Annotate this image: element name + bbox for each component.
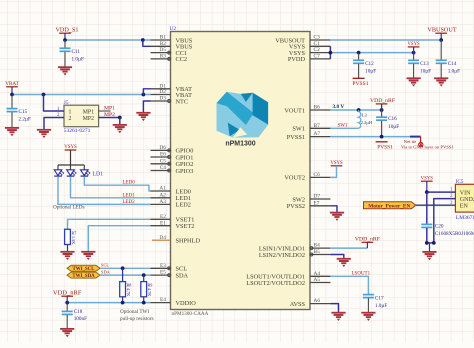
resistor R9 body (141, 282, 147, 297)
power port VSYS (LEDs) (64, 145, 77, 150)
wire VSYS to LED anodes (70, 150, 72, 165)
svg-text:C1608X5R0J106M080AB: C1608X5R0J106M080AB (435, 231, 474, 237)
svg-text:VDD_nRF: VDD_nRF (53, 289, 82, 296)
IC5 pin 1 VIN (450, 188, 471, 197)
ground below C14 (434, 78, 448, 86)
svg-text:LED2: LED2 (176, 202, 191, 209)
svg-text:VBUSOUT: VBUSOUT (427, 26, 456, 33)
J5 pin 2 (57, 113, 94, 122)
svg-text:E5: E5 (160, 270, 166, 276)
wire C20 bottom join (427, 242, 434, 244)
power port VSYS above C13 (407, 42, 420, 47)
ground on PVSS2 (330, 213, 344, 221)
wire VBAT to J5 pin 1 (44, 95, 65, 112)
svg-text:E2: E2 (160, 214, 166, 220)
svg-text:1.0µF: 1.0µF (448, 69, 460, 75)
svg-text:SHPHLD: SHPHLD (176, 238, 201, 245)
LED D?b (middle) (67, 165, 77, 176)
svg-text:C20: C20 (435, 223, 444, 229)
svg-text:GPIO3: GPIO3 (176, 168, 194, 175)
wire pin C1 elbow (329, 46, 331, 59)
capacitor C20 (421, 192, 474, 243)
svg-text:Optional LEDs: Optional LEDs (53, 205, 85, 211)
pin C7 PVDD (right) (288, 54, 331, 64)
svg-text:Net tie: Net tie (404, 139, 416, 144)
svg-text:3.0 V: 3.0 V (333, 104, 345, 110)
ground below C20 (422, 252, 436, 260)
svg-text:1.0µF: 1.0µF (375, 303, 387, 309)
capacitor C13 (408, 53, 431, 79)
svg-text:2.2µH: 2.2µH (361, 120, 373, 125)
IC5 pin 3 EN (450, 201, 468, 210)
wire SDA to R9 (143, 275, 145, 282)
svg-text:4.7K: 4.7K (147, 288, 152, 296)
LED anode rail (58, 164, 84, 166)
pin E6 GPIO1 (left) (151, 152, 194, 162)
svg-text:E7: E7 (314, 200, 320, 206)
pin C5 GPIO2 (left) (151, 158, 194, 168)
svg-text:2.2µF: 2.2µF (19, 116, 31, 122)
pin D6 GPIO0 (left) (151, 145, 194, 155)
IC5 pin 2 GND (450, 194, 474, 203)
svg-text:D4: D4 (159, 235, 166, 241)
junction VSYS at C13 (412, 51, 416, 55)
wire NTC to ground (143, 101, 150, 113)
svg-text:1.5K: 1.5K (71, 236, 76, 244)
junction VSYS at C20 (425, 190, 429, 194)
pin D3 NTC (left) (151, 96, 189, 106)
junction VBAT at C15 (10, 93, 14, 97)
svg-text:C17: C17 (375, 295, 384, 301)
svg-text:C1: C1 (314, 41, 321, 47)
capacitor C15 (7, 95, 31, 128)
junction VDDIO at C18 (65, 301, 69, 305)
wire LED middle to pin A2 (LED1) (71, 177, 151, 198)
LED D?c (right) (81, 165, 91, 176)
pin A6 AVSS (right) (290, 298, 331, 308)
svg-text:B1: B1 (160, 35, 167, 41)
pin E4 VDDIO (left) (151, 297, 197, 307)
inductor L3 (359, 110, 373, 128)
svg-text:PVSS1: PVSS1 (352, 81, 368, 87)
svg-text:A6: A6 (314, 298, 321, 304)
power port PVSS1 below C12 (352, 78, 368, 87)
svg-text:SW1: SW1 (292, 126, 305, 133)
svg-text:B7: B7 (314, 123, 321, 129)
wire VBAT rail (12, 94, 151, 96)
svg-text:LSOUT2/VOUTLDO2: LSOUT2/VOUTLDO2 (246, 280, 305, 287)
connector J5 body (64, 105, 99, 127)
junction SCL pull-up (121, 266, 125, 270)
pin C6 VOUT2 (right) (284, 172, 330, 182)
svg-text:AVSS: AVSS (290, 301, 306, 308)
svg-text:nPM1300-CAAA: nPM1300-CAAA (172, 311, 209, 317)
svg-text:1: 1 (69, 109, 72, 115)
wire to pin D1 (143, 89, 150, 95)
svg-text:L3: L3 (362, 113, 368, 118)
svg-text:R8: R8 (127, 283, 132, 288)
via to GND symbol (419, 137, 423, 147)
svg-text:TWI_SDA: TWI_SDA (72, 274, 95, 279)
svg-text:C13: C13 (420, 61, 429, 67)
svg-text:B6: B6 (314, 105, 321, 111)
wire LSOUT1 to C17 (330, 276, 368, 294)
svg-text:SDA: SDA (176, 272, 189, 279)
wire VDD_nRF tick (66, 296, 68, 302)
pin E2 VSET1 (left) (151, 214, 195, 224)
svg-text:D3: D3 (159, 96, 166, 102)
pin C4 GPIO3 (left) (151, 165, 194, 175)
svg-text:MP2: MP2 (83, 116, 94, 122)
svg-text:C3: C3 (314, 35, 321, 41)
ground on J5 pin 2 (37, 130, 51, 138)
svg-text:U2: U2 (170, 26, 177, 32)
svg-text:E3: E3 (160, 263, 166, 269)
wire VSYS to IC5 VIN (427, 191, 456, 193)
wire J5 pin 2 to ground (44, 118, 64, 130)
port TWI_SDA (67, 272, 100, 279)
svg-text:LED0: LED0 (123, 181, 136, 186)
wire SW1 to L3 (330, 127, 358, 129)
pin D5 CC1 (left) (151, 47, 188, 57)
wire VSYS tick C13 (413, 47, 415, 53)
capacitor C17 (363, 294, 387, 313)
pin D7 SW2 (right) (292, 194, 330, 204)
capacitor C14 (436, 40, 460, 78)
svg-text:IC5: IC5 (456, 179, 464, 185)
power port VDD_S1 (55, 26, 78, 33)
junction VDDIO at R8 (121, 301, 125, 305)
svg-text:D7: D7 (314, 194, 321, 200)
svg-text:D6: D6 (159, 145, 166, 151)
svg-text:R7: R7 (72, 231, 77, 236)
pin B4 LSIN1/VINLDO1 (right) (259, 243, 331, 253)
IC5 body (455, 184, 474, 212)
power port VDD_nRF (VOUT1) (370, 98, 395, 104)
svg-text:J5: J5 (64, 100, 69, 106)
junction PVSS1 at C16 (380, 135, 384, 139)
pin A2 LED1 (left) (151, 192, 191, 202)
pin D2 VBAT (left) (151, 89, 193, 99)
capacitor C16 (376, 110, 399, 137)
svg-text:100nF: 100nF (74, 316, 87, 322)
svg-text:VSET2: VSET2 (176, 223, 195, 230)
pin B5 LSIN2/VINLDO2 (right) (259, 249, 331, 259)
svg-text:C18: C18 (74, 309, 83, 315)
svg-text:PVSS1: PVSS1 (287, 134, 305, 141)
svg-text:pull-up resistors: pull-up resistors (120, 316, 154, 322)
pin A1 LED0 (left) (151, 186, 191, 196)
svg-text:LED1: LED1 (123, 193, 136, 198)
junction VBUSOUT at C14 (439, 38, 443, 42)
svg-text:PVSS2: PVSS2 (287, 203, 305, 210)
wire VSYS rail to C13 (330, 52, 413, 54)
pin D1 VBAT (left) (151, 83, 193, 93)
svg-text:VDD_nRF: VDD_nRF (370, 98, 395, 104)
svg-text:VBAT: VBAT (5, 81, 19, 87)
svg-text:2: 2 (69, 116, 72, 122)
junction VDDIO at R9 (142, 301, 146, 305)
capacitor C12 (353, 53, 376, 79)
junction VBUS branch (141, 38, 145, 42)
svg-text:NTC: NTC (176, 98, 189, 105)
pin E7 PVSS2 (right) (287, 200, 331, 210)
wire LED left to pin A3 (LED2) (58, 177, 151, 205)
svg-text:C4: C4 (160, 165, 167, 171)
pin C2 VSYS (right) (289, 47, 331, 57)
svg-text:SW1: SW1 (338, 124, 349, 129)
power port VSYS (VOUT2) (330, 161, 343, 166)
ground on LSIN2 (337, 259, 351, 267)
svg-text:A1: A1 (159, 186, 166, 192)
svg-text:E4: E4 (160, 297, 166, 303)
svg-text:A3: A3 (159, 199, 166, 205)
ground on MP2 (113, 125, 127, 133)
pin D4 SHPHLD (left) (152, 235, 200, 245)
wire R9 to VDDIO rail (143, 297, 145, 303)
junction VSYS elbow (329, 51, 333, 55)
svg-text:LM3671TL: LM3671TL (456, 215, 474, 221)
svg-text:B4: B4 (314, 243, 321, 249)
wire to pin B2 (143, 40, 151, 46)
svg-text:GND2: GND2 (460, 197, 474, 203)
svg-text:LED2: LED2 (123, 200, 136, 205)
svg-text:A4: A4 (314, 271, 321, 277)
J5 MP1 stub (99, 110, 111, 112)
ground on VSET2 (81, 252, 95, 260)
ground below C18 (60, 329, 74, 337)
ground below R7 (60, 252, 74, 260)
svg-text:D5: D5 (159, 47, 166, 53)
svg-text:VOUT1: VOUT1 (284, 107, 305, 114)
svg-text:LSIN2/VINLDO2: LSIN2/VINLDO2 (259, 252, 305, 259)
pin B6 VOUT1 (right) (284, 105, 330, 115)
wire VDD_nRF tick VOUT1 (381, 104, 383, 110)
pin A5 LSOUT2/VOUTLDO2 (right) (246, 277, 330, 287)
pin A3 LED2 (left) (151, 199, 191, 209)
ground below C13 (407, 78, 421, 86)
port Motor_Power_EN (364, 202, 416, 210)
svg-text:Motor_Power_EN: Motor_Power_EN (368, 203, 410, 209)
J5 MP2 stub wire (99, 117, 120, 119)
svg-text:MP1: MP1 (83, 109, 94, 115)
wire IC5 GND down (434, 199, 456, 243)
svg-text:4.7K: 4.7K (126, 288, 131, 296)
power port VDD_nRF (LSIN1) (355, 237, 380, 243)
svg-text:C5: C5 (160, 158, 167, 164)
svg-text:C12: C12 (365, 61, 374, 67)
junction VOUT1 at L3 (357, 108, 361, 112)
power port VDD_nRF (VDDIO) (53, 289, 82, 296)
svg-text:53261-0271: 53261-0271 (64, 128, 91, 134)
wire SCL (100, 267, 151, 269)
pin C3 VBUSOUT (right) (275, 35, 330, 45)
svg-text:MP1: MP1 (104, 106, 115, 112)
junction C20 bottom right (432, 241, 436, 245)
junction SDA pull-up (142, 273, 146, 277)
resistor R7 body (65, 229, 71, 244)
svg-text:A2: A2 (159, 192, 166, 198)
wire VDD_S1 tick (64, 33, 66, 40)
junction VOUT1 at C16 (380, 108, 384, 112)
svg-text:Optional TWI: Optional TWI (120, 309, 149, 315)
svg-text:VDDIO: VDDIO (176, 300, 197, 307)
pin B7 SW1 (right) (292, 123, 330, 133)
wire VOUT2 to VSYS (330, 166, 336, 178)
J5 pin 1 (57, 107, 94, 116)
IC U2 nPM1300 body (171, 32, 311, 310)
svg-text:C14: C14 (448, 61, 457, 67)
svg-text:E1: E1 (160, 220, 166, 226)
Nordic Semiconductor logo (217, 92, 269, 138)
junction VBAT at D1 branch (142, 93, 146, 97)
junction VSYS at C12 (357, 51, 361, 55)
net tie NT1 (410, 136, 421, 138)
svg-text:C6: C6 (314, 172, 321, 178)
power port PVSS1 below C16 (376, 142, 393, 151)
svg-text:EN: EN (460, 204, 469, 210)
svg-text:PVSS1: PVSS1 (377, 144, 393, 150)
ground below C11 (58, 67, 72, 75)
pin A7 PVSS1 (right) (287, 131, 331, 141)
capacitor C18 (62, 303, 87, 329)
wire VDD_S1 to VBUS pins (65, 39, 151, 41)
ground below C17 (361, 313, 375, 321)
wire VOUT1 3.0V rail (330, 109, 381, 111)
wire LSIN2 to ground (330, 255, 343, 259)
wire pin E1 VSET2 to ground (88, 226, 150, 252)
svg-text:R9: R9 (148, 283, 153, 288)
svg-text:C15: C15 (19, 109, 28, 115)
wire AVSS to ground (330, 304, 338, 313)
power port VBUSOUT (427, 26, 456, 33)
svg-text:B3: B3 (160, 54, 167, 60)
resistor R8 body (120, 282, 126, 297)
junction VDD_S1 at C11 (63, 38, 67, 42)
wire pin E2 VSET1 (68, 219, 151, 229)
svg-text:PVDD: PVDD (288, 56, 306, 63)
wire to ground IC5 (429, 243, 431, 252)
pin E3 SCL (left) (151, 263, 188, 273)
wire MP2 to ground (119, 118, 121, 125)
svg-text:CC2: CC2 (176, 56, 188, 63)
junction VBAT at J5 (42, 93, 46, 97)
capacitor C11 (60, 40, 84, 67)
svg-text:LD1: LD1 (93, 172, 104, 178)
svg-text:E6: E6 (160, 152, 166, 158)
port TWI_SCL (67, 265, 100, 272)
junction MP2 (118, 116, 122, 120)
svg-text:D2: D2 (159, 89, 166, 95)
pin C1 VSYS (right) (289, 41, 331, 51)
svg-text:VDD_S1: VDD_S1 (55, 26, 78, 33)
svg-text:A7: A7 (314, 131, 321, 137)
wire LSIN1 to VDD_nRF (330, 247, 367, 249)
svg-text:C16: C16 (388, 116, 397, 122)
power port VBAT (5, 81, 19, 87)
junction C20 bottom left (425, 241, 429, 245)
pin B3 CC2 (left) (151, 54, 188, 64)
wire R7 to ground (67, 245, 69, 252)
wire SDA (100, 274, 151, 276)
ground below C15 (5, 128, 19, 136)
wire Motor_Power_EN to IC5 EN (416, 204, 456, 206)
svg-text:10µF: 10µF (420, 69, 431, 75)
pin E1 VSET2 (left) (151, 220, 195, 230)
svg-text:VIN: VIN (460, 190, 471, 196)
svg-text:C7: C7 (314, 54, 321, 60)
wire VDDIO rail (67, 302, 150, 304)
svg-text:A5: A5 (314, 277, 321, 283)
LED D?a (left) (54, 165, 64, 176)
svg-text:B5: B5 (314, 249, 321, 255)
svg-text:nPM1300: nPM1300 (225, 140, 255, 147)
svg-text:Via to GND layer on PVSS1: Via to GND layer on PVSS1 (401, 145, 454, 150)
wire VBUSOUT tick (440, 33, 442, 40)
pin A4 LSOUT1/VOUTLDO1 (right) (246, 271, 330, 281)
svg-text:MP2: MP2 (104, 112, 115, 118)
wire PVSS1 rail from pin A7 (330, 136, 410, 138)
svg-text:C11: C11 (72, 49, 81, 55)
ground on NTC pin D3 (136, 113, 150, 121)
wire LED right to pin A1 (LED0) (84, 177, 150, 192)
wire VBUSOUT rail (330, 39, 441, 41)
wire SCL to R8 (122, 268, 124, 281)
power port VSYS (IC5) (421, 176, 434, 181)
svg-text:SDA: SDA (101, 269, 111, 274)
svg-text:C2: C2 (314, 47, 321, 53)
svg-text:VOUT2: VOUT2 (284, 175, 305, 182)
svg-text:LSOUT1: LSOUT1 (352, 272, 371, 277)
pin B2 VBUS (left) (151, 41, 193, 51)
svg-text:TWI_SCL: TWI_SCL (72, 267, 95, 272)
wire PVSS2 to ground (330, 206, 337, 213)
svg-text:VDD_nRF: VDD_nRF (355, 237, 380, 243)
svg-text:1.0µF: 1.0µF (72, 56, 84, 62)
svg-text:10µF: 10µF (388, 124, 399, 130)
wire VSYS tick IC5 (426, 181, 428, 192)
note optional TWI pull-up resistors (120, 309, 154, 322)
ground on AVSS (331, 313, 345, 321)
svg-text:10µF: 10µF (365, 69, 376, 75)
svg-text:SCL: SCL (101, 263, 109, 268)
wire VDD_nRF tick LSIN1 (366, 242, 368, 248)
wire VBAT tick (11, 87, 13, 95)
wire R8 to VDDIO rail (122, 297, 124, 303)
pin B1 VBUS (left) (151, 35, 193, 45)
svg-text:B2: B2 (160, 41, 167, 47)
pin E5 SDA (left) (151, 270, 189, 280)
